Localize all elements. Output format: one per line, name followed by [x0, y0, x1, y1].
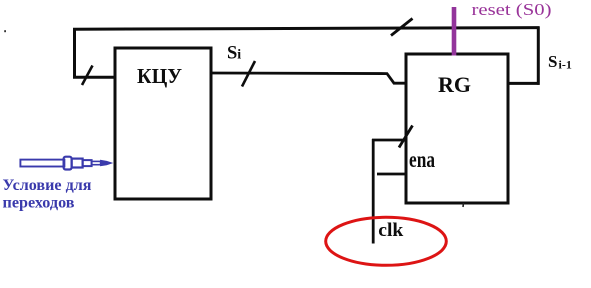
block KCU	[115, 48, 211, 199]
blue arrow (pen shape) body	[20, 157, 100, 170]
blue arrow collar	[64, 157, 72, 170]
slash bus mark on KCU input	[82, 66, 93, 86]
wire ena input	[372, 139, 405, 142]
svg-text:переходов: переходов	[3, 195, 75, 212]
wire Si from KCU to RG with jog	[211, 73, 406, 83]
slash bus mark on Si wire	[242, 61, 255, 87]
svg-text:S: S	[548, 52, 557, 71]
wire KCU input horizontal	[73, 76, 115, 79]
svg-text:i: i	[237, 47, 241, 62]
wire clk vertical	[372, 139, 375, 244]
svg-text:КЦУ: КЦУ	[137, 64, 182, 88]
blue arrow step3	[83, 160, 92, 166]
wire left vertical	[73, 28, 76, 79]
red ellipse around clk	[326, 217, 447, 265]
slash bus mark on top feedback wire	[391, 19, 413, 36]
slash bus mark on ena input	[399, 126, 413, 148]
svg-text:i-1: i-1	[559, 58, 572, 72]
wire RG output to feedback	[508, 82, 540, 85]
wire stub into RG	[377, 173, 405, 176]
svg-text:S: S	[227, 43, 237, 63]
svg-text:reset (S0): reset (S0)	[472, 0, 552, 19]
svg-text:RG: RG	[438, 72, 471, 97]
reset line (purple)	[452, 7, 457, 56]
blue arrow step2	[72, 159, 83, 168]
block RG	[406, 54, 508, 203]
blue arrow tip	[101, 161, 111, 166]
tick under RG bottom	[462, 203, 465, 207]
wire right feedback vertical	[537, 27, 540, 85]
blue arrow rod	[92, 161, 101, 164]
svg-text:clk: clk	[378, 220, 403, 241]
svg-text:Условие для: Условие для	[3, 177, 92, 194]
stray dot top-left	[4, 30, 6, 32]
svg-text:ena: ena	[409, 146, 435, 173]
wire top feedback horizontal	[73, 28, 540, 30]
